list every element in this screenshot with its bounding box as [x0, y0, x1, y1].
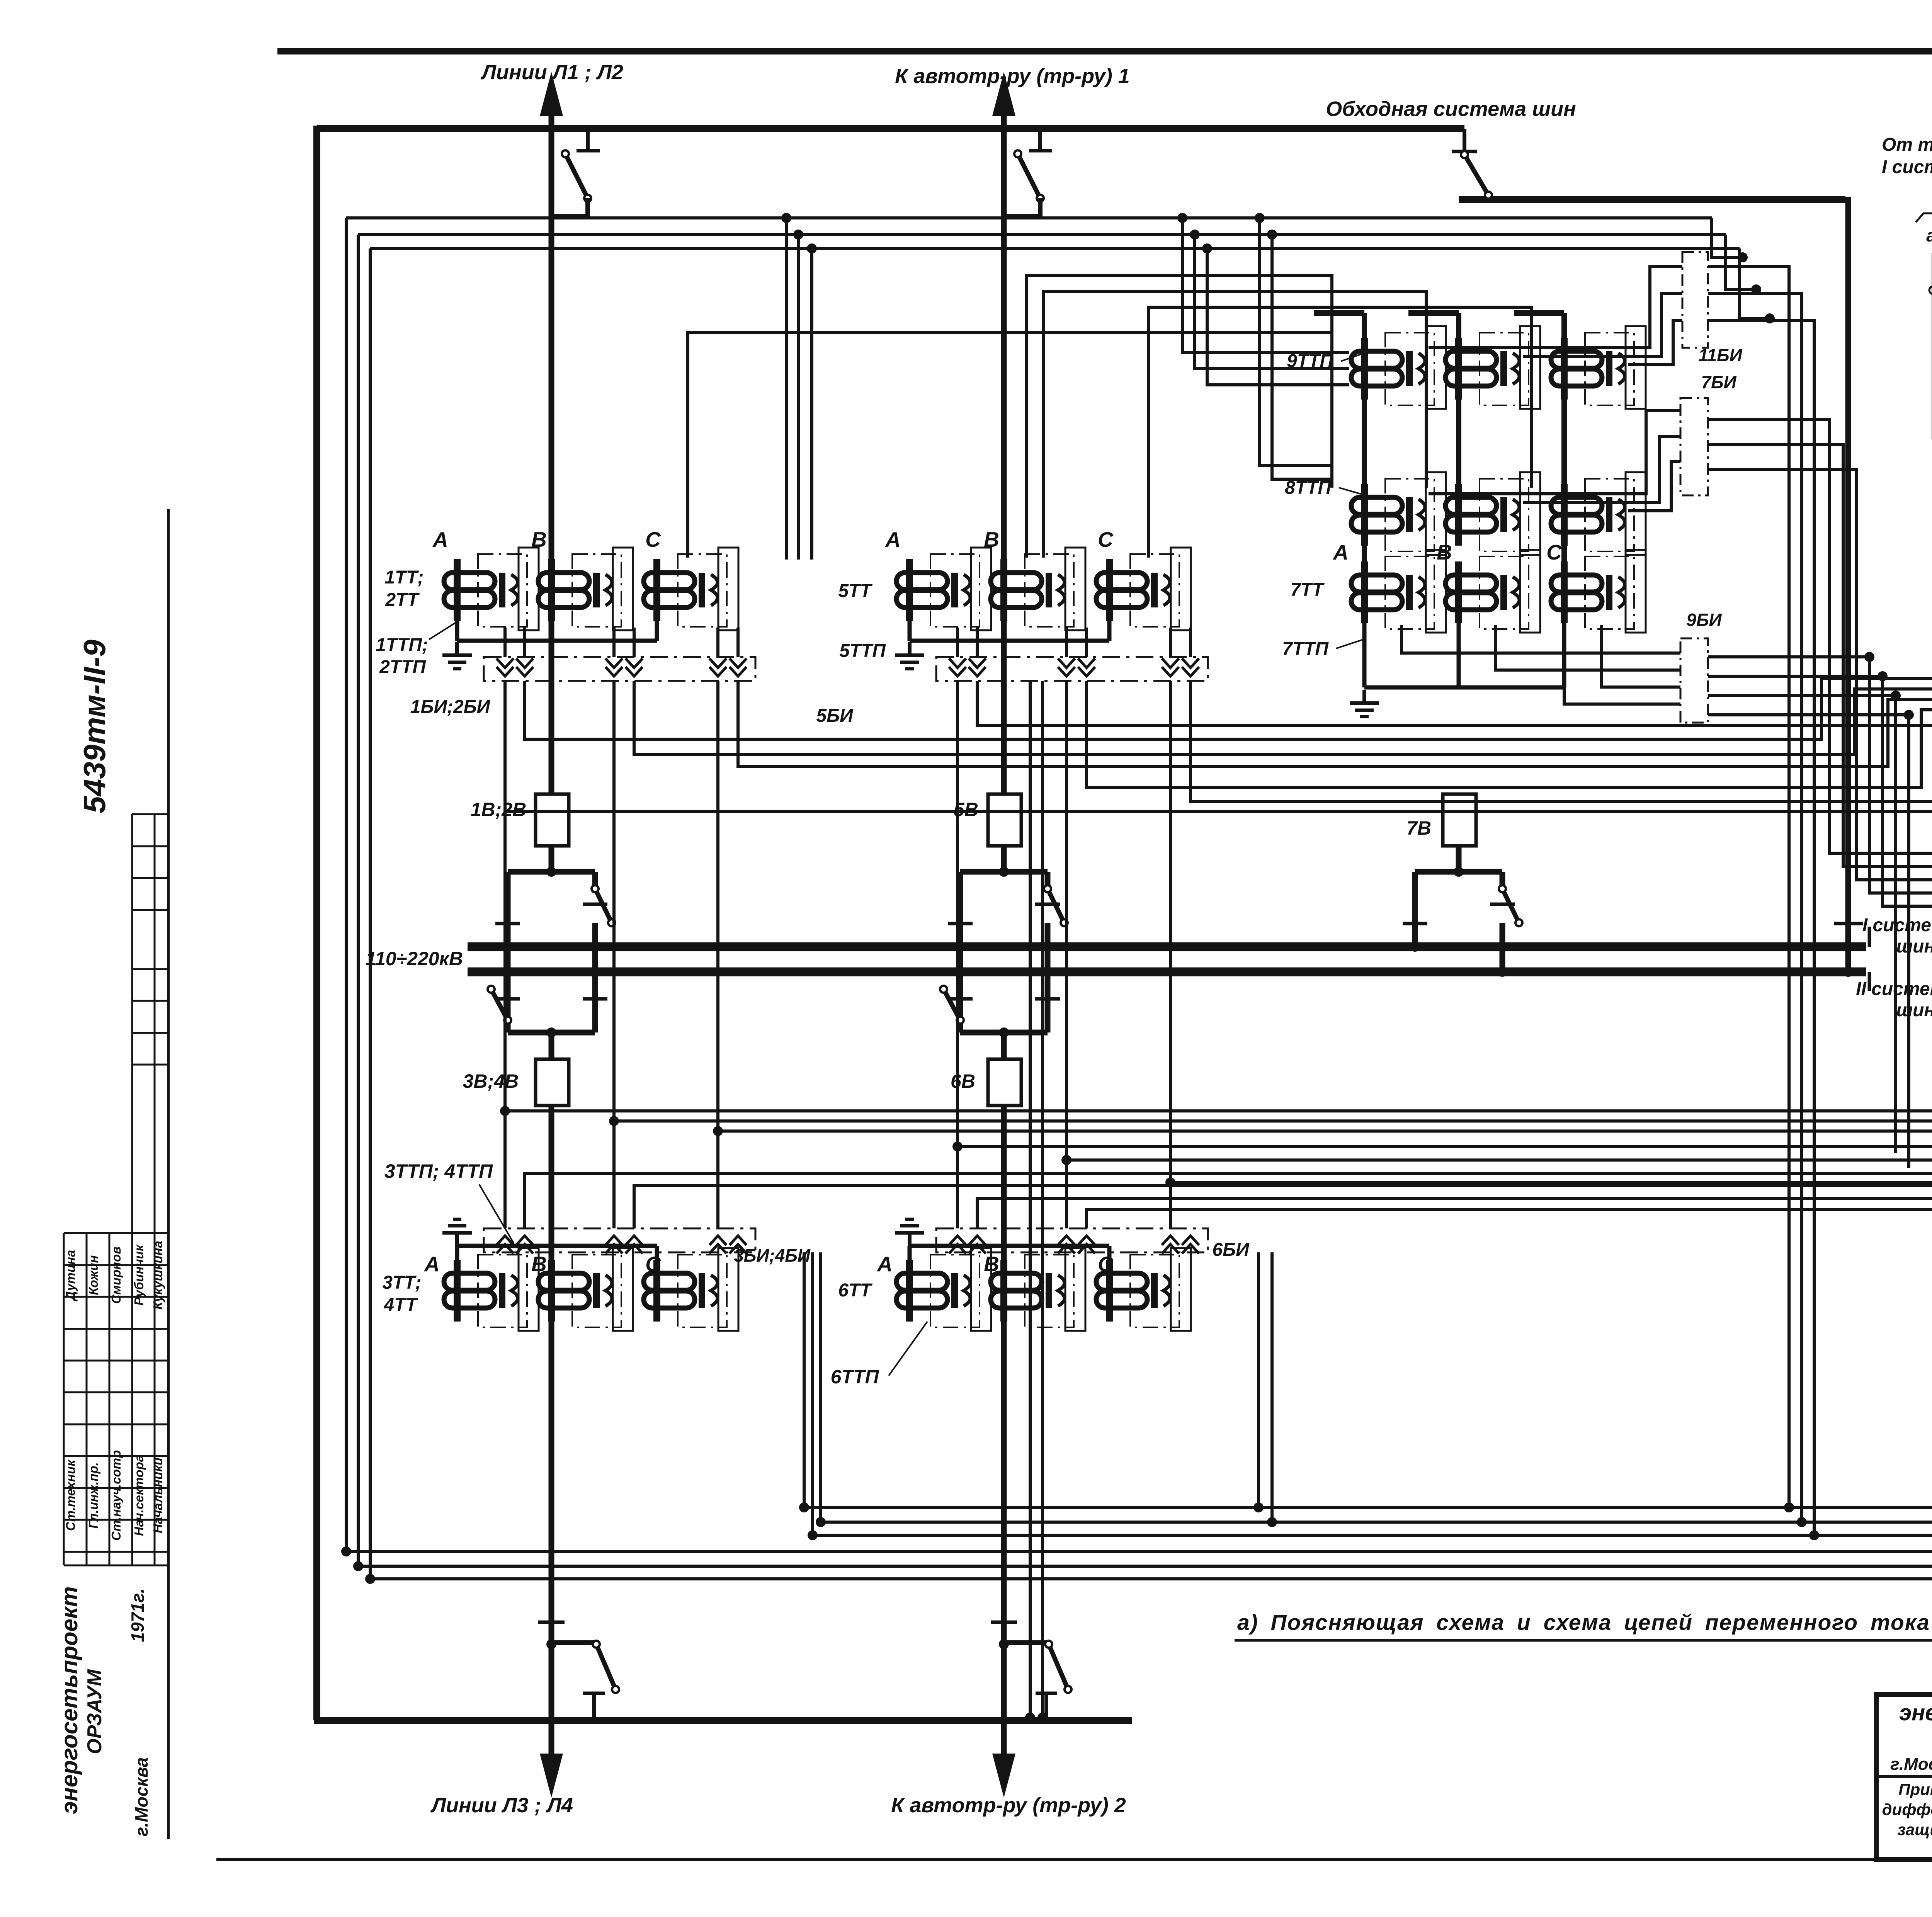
wire f2 loop to 8TTP 3: [1149, 307, 1532, 558]
ground 3TTP: [442, 1219, 472, 1246]
svg-text:3ТТ;: 3ТТ;: [382, 1272, 421, 1293]
stamp lower row line 7: [64, 1455, 168, 1457]
wire 9TTP to 11BI 2: [1523, 294, 1682, 356]
wire 7BI out 1: [1708, 419, 1932, 856]
wire 5BI to 3RTT 0: [957, 681, 1932, 1146]
svg-text:7В: 7В: [1406, 817, 1431, 839]
wire left drop c: [369, 248, 372, 1579]
svg-text:энергосетьпроект: энергосетьпроект: [1899, 1700, 1932, 1725]
CT group 1TT;2TT row: [444, 559, 518, 621]
8TTP-7TT primary chain: [1362, 545, 1367, 562]
svg-text:От тр-ра напряжения: От тр-ра напряжения: [1882, 134, 1932, 155]
feeder x2598 lower shaft: [1001, 1106, 1007, 1762]
breaker 5V and bus coupling: [988, 794, 1021, 846]
caption underline: [1235, 1639, 1932, 1642]
busbar I 110-220kV: [468, 942, 1866, 951]
svg-text:ОРЗАУМ: ОРЗАУМ: [83, 1669, 106, 1754]
svg-text:А: А: [1332, 540, 1349, 564]
svg-text:защиты шин напряжением: защиты шин напряжением: [1897, 1820, 1932, 1839]
svg-text:Ст.науч.сотр: Ст.науч.сотр: [109, 1450, 123, 1541]
ground 6TTP: [895, 1219, 924, 1246]
stamp upper row line 0: [132, 813, 168, 815]
disconnector T1-bypass stub: [1004, 198, 1040, 216]
wire 11BI out 2: [1708, 294, 1802, 1522]
wire 7TT to 9BI 3: [1601, 625, 1680, 687]
6BI arrow x2478: [949, 1236, 966, 1254]
svg-text:Линии Л1 ; Л2: Линии Л1 ; Л2: [480, 61, 623, 84]
sheet bottom border: [216, 1858, 1932, 1861]
title left cell divider: [1876, 1775, 1932, 1778]
wire 5BI down to 6BI c: [1169, 1182, 1172, 1228]
bottom thick tie line: [314, 1717, 1132, 1724]
wire 1BI down to 3BI 1: [612, 1121, 616, 1228]
wire nested loop e: [1272, 235, 1332, 479]
stamp lower row line 0: [64, 1232, 168, 1234]
svg-text:1ТТП;: 1ТТП;: [376, 635, 428, 655]
1BI arrow x1307: [497, 658, 514, 676]
svg-text:110÷220кВ: 110÷220кВ: [366, 948, 463, 970]
wire f1 loop to 9TTP 1: [688, 332, 1332, 558]
svg-text:С: С: [645, 527, 661, 551]
disconnector T1-bypass stem tick: [1029, 149, 1052, 153]
wire 7TT to 9BI 4: [1564, 687, 1680, 704]
svg-text:II система: II система: [1856, 979, 1932, 999]
feeder T1 up arrow: [992, 72, 1015, 116]
svg-text:шин: шин: [1896, 936, 1932, 957]
junction dot 2101: [807, 243, 817, 253]
wire f2 loop to 8TTP 2: [1043, 291, 1426, 558]
stub x1358 to 1BI: [523, 628, 526, 657]
3BI arrow x1358: [516, 1236, 533, 1254]
svg-text:2ТТП: 2ТТП: [379, 657, 426, 677]
wire 1BI to 3RTT 2: [718, 681, 1932, 1131]
stub x2478 to 5BI: [956, 628, 959, 657]
stamp table lower verticals: [63, 1233, 65, 1565]
stamp column right edge: [167, 509, 170, 1839]
stamp lower row line 9: [64, 1519, 168, 1521]
stamp upper row line 2: [132, 877, 168, 879]
svg-text:Кожин: Кожин: [86, 1255, 100, 1295]
6BI arrow x2812: [1078, 1236, 1095, 1254]
wire 1BI down to 3BI 0: [503, 1111, 507, 1228]
6BI arrow x3081: [1182, 1236, 1199, 1254]
wire mid drop a: [785, 218, 788, 560]
wire top right drop b: [1726, 235, 1756, 289]
svg-text:Рубинчик: Рубинчик: [132, 1244, 146, 1306]
5BI arrow x2478: [949, 658, 966, 676]
1BI arrow x1358: [516, 658, 533, 676]
svg-text:Начальники: Начальники: [151, 1458, 165, 1533]
stamp lower row line 3: [64, 1328, 168, 1330]
6BI arrow x2760: [1058, 1236, 1075, 1254]
CT group 8TTP row: [1351, 484, 1425, 546]
wire tie drop c: [1207, 248, 1349, 385]
svg-text:А: А: [432, 527, 448, 551]
svg-text:Ст.техник: Ст.техник: [63, 1459, 78, 1531]
stub x1858 to 1BI: [716, 628, 719, 657]
wire top right drop c: [1740, 248, 1770, 318]
wire run 2100: [505, 651, 1932, 811]
svg-text:Кукушкина: Кукушкина: [151, 1241, 165, 1310]
svg-text:А: А: [423, 1252, 440, 1276]
wire RTB 64 drop: [821, 1203, 1932, 1522]
svg-text:1971г.: 1971г.: [128, 1588, 148, 1642]
ground 5TTP: [895, 642, 924, 669]
feeder L1L2 up arrow: [540, 72, 563, 116]
svg-text:5БИ: 5БИ: [816, 706, 854, 726]
wire 7TT to 9BI 1: [1401, 625, 1680, 653]
stub x1641 to 1BI: [633, 628, 636, 657]
svg-text:В: В: [1437, 540, 1452, 564]
CT group 6TT row: [896, 1260, 970, 1322]
wire RTB 61 drop: [346, 1203, 1932, 1551]
5BI arrow x2760: [1058, 658, 1075, 676]
wire 7TT to 9BI 2: [1496, 625, 1680, 670]
feeder x2598 down arrow: [992, 1754, 1015, 1798]
stamp lower row line 4: [64, 1360, 168, 1362]
stamp lower row line 8: [64, 1487, 168, 1489]
svg-text:Гл.инж.пр.: Гл.инж.пр.: [86, 1462, 100, 1529]
6BI arrow x2529: [969, 1236, 986, 1254]
stub x1910 to 1BI: [736, 628, 740, 657]
wire 5BI to 3RTT 1: [1066, 681, 1932, 1160]
CT group 3TT;4TT row: [444, 1260, 518, 1322]
svg-text:В: В: [531, 1252, 547, 1276]
feeder x1427 bottom tee: [592, 1693, 596, 1720]
svg-text:С: С: [1098, 1252, 1114, 1276]
wire 6BI drop v 3257: [1257, 1252, 1260, 1507]
disconnector L1L2-bypass stem: [586, 129, 590, 151]
wire 9BI out 4: [1708, 715, 1909, 1168]
stamp lower row line 5: [64, 1391, 168, 1393]
wire 9TTP to 11BI 1: [1429, 267, 1682, 348]
wire RTB 62 drop: [804, 1203, 1932, 1507]
bypass downlead tick at bus I: [1834, 922, 1863, 925]
relay block 7BI arrows: [1703, 410, 1704, 411]
stamp upper row line 4: [132, 968, 168, 970]
wire 7BI out 3: [1708, 469, 1932, 880]
stamp upper row line 3: [132, 909, 168, 911]
wire 5BI down to 6BI 0: [956, 1146, 959, 1228]
wire 9BI out 2: [1708, 676, 1932, 906]
wire 3BI up run 1: [525, 1017, 1932, 1228]
wire nested loop d: [1260, 218, 1332, 466]
svg-text:дифференциально-тормозной: дифференциально-тормозной: [1882, 1800, 1932, 1818]
wire top run c: [370, 247, 1740, 250]
relay box 1BI;2BI dash frame: [484, 657, 755, 681]
busbar II 110-220kV: [468, 968, 1866, 976]
feeder x1427 bottom blade: [596, 1644, 616, 1689]
svg-text:г.Москва: г.Москва: [1890, 1755, 1932, 1774]
wire run 3972: [813, 1534, 1932, 1537]
wire 5BI drop v 2666: [1029, 681, 1032, 1716]
wire left drop b: [357, 235, 360, 1566]
wire left drop a: [345, 218, 348, 1551]
stamp lower row line 10: [64, 1551, 168, 1553]
5BI arrow x3081: [1182, 658, 1199, 676]
bypass busbar (Obkhodnaya sistema shin): [317, 125, 1464, 132]
stamp lower row line 6: [64, 1424, 168, 1425]
svg-text:К автотр-ру (тр-ру) 2: К автотр-ру (тр-ру) 2: [891, 1794, 1126, 1817]
stub x2529 to 5BI: [976, 628, 979, 657]
CT group 5TT row: [896, 559, 970, 621]
feeder x2598 bottom node: [999, 1639, 1009, 1649]
svg-text:шин: шин: [1896, 1000, 1932, 1021]
stamp upper row line 7: [132, 1064, 168, 1066]
ground 1TTP: [442, 642, 472, 669]
disconnector bypass-to-tie stem: [1463, 129, 1466, 151]
stub x2812 to 5BI: [1085, 628, 1088, 657]
left thick boundary: [313, 126, 320, 1720]
svg-text:Принцип схемы и расчеты: Принцип схемы и расчеты: [1898, 1780, 1932, 1798]
bypass downlead joint circle bus II: [1844, 968, 1852, 976]
stamp upper row line 5: [132, 1000, 168, 1002]
wire 3BI up run 2: [634, 1017, 1932, 1228]
CT group 9TTP row: [1351, 338, 1425, 400]
5BI arrow x2529: [969, 658, 986, 676]
svg-text:С: С: [645, 1252, 661, 1276]
junction dot 3092: [1190, 230, 1200, 240]
wire 11BI out 3: [1708, 321, 1814, 1535]
3BI arrow x1858: [709, 1236, 726, 1254]
disconnector L1L2-bypass stub: [551, 198, 588, 216]
svg-text:Нач.сектора: Нач.сектора: [132, 1455, 146, 1536]
relay box 5BI dash frame: [936, 657, 1208, 681]
svg-text:С: С: [1098, 527, 1114, 551]
svg-text:3ТТП; 4ТТП: 3ТТП; 4ТТП: [384, 1160, 493, 1182]
wire mid drop c: [810, 248, 813, 560]
wire 5BI drop v 2698: [1041, 681, 1044, 1716]
wire 11BI out 1: [1708, 267, 1789, 1507]
callout 1TTP: [429, 623, 455, 640]
wire top run a: [346, 216, 1712, 219]
svg-text:1ТТ;: 1ТТ;: [384, 567, 423, 588]
breaker 7V and bus coupling: [1443, 794, 1476, 846]
wire 1BI down to 3BI 2: [716, 1131, 719, 1228]
wire 9BI out 1: [1708, 657, 1932, 893]
wire f2 loop to 8TTP 1: [1026, 276, 1332, 558]
title block outer: [1876, 1694, 1932, 1859]
wire KRT row1 feed 3: [1087, 651, 1932, 788]
wire 6BI up run 1: [977, 1017, 1932, 1228]
CT group 7TT row: [1351, 561, 1425, 623]
stub x3029 to 5BI: [1169, 628, 1172, 657]
wire 5BI down to 6BI 1: [1065, 1160, 1068, 1228]
svg-text:5ТТ: 5ТТ: [838, 581, 872, 601]
wire 6BI drop v 2124: [819, 1252, 822, 1522]
wire 6BI drop v 3292: [1270, 1252, 1274, 1522]
7TT common line: [1364, 685, 1564, 690]
5BI arrow x3029: [1162, 658, 1179, 676]
wire top run b: [358, 233, 1726, 236]
stamp lower row line 1: [64, 1264, 168, 1266]
svg-text:5ТТП: 5ТТП: [839, 641, 886, 661]
svg-text:1БИ;2БИ: 1БИ;2БИ: [410, 697, 491, 717]
wire 7BI out 2: [1708, 444, 1932, 867]
feeder x1427 bottom isolator tick: [538, 1621, 565, 1624]
6BI arrow x3029: [1162, 1236, 1179, 1254]
wire 8TTP to 7BI 2: [1523, 436, 1680, 502]
wire tie drop a: [1182, 218, 1349, 352]
wire KRT row1 feed 0: [525, 672, 1932, 739]
3BI arrow x1307: [497, 1236, 514, 1254]
relay block 11BI arrows: [1704, 266, 1704, 267]
svg-text:С: С: [1546, 540, 1562, 564]
1BI arrow x1858: [709, 658, 726, 676]
wire KRT row1 feed 4: [1190, 651, 1932, 801]
3BI arrow x1589: [605, 1236, 622, 1254]
1BI arrow x1589: [605, 658, 622, 676]
5BI arrow x2812: [1078, 658, 1095, 676]
feeder x1427 bottom node: [546, 1639, 556, 1649]
svg-text:В: В: [984, 1252, 999, 1276]
disconnector bypass-to-tie blade: [1464, 155, 1488, 195]
1BI arrow x1641: [626, 658, 643, 676]
9TTP-8TTP primary chain: [1362, 399, 1367, 485]
junction dot 2066: [793, 230, 803, 240]
svg-text:А: А: [884, 527, 901, 551]
svg-text:К автотр-ру (тр-ру) 1: К автотр-ру (тр-ру) 1: [895, 65, 1130, 88]
svg-text:7ТТ: 7ТТ: [1290, 580, 1325, 600]
disconnector L1L2-bypass stem tick: [577, 149, 600, 153]
disconnector bypass-to-tie tick: [1452, 150, 1477, 153]
wire run 1878: [977, 651, 1932, 726]
svg-text:В: В: [984, 527, 999, 551]
svg-text:6БИ: 6БИ: [1212, 1240, 1250, 1260]
sheet top border: [277, 48, 1932, 54]
wire RTB 63 drop: [358, 1203, 1932, 1566]
voltage circuit I buses and relays 1RN 2RN: [1932, 253, 1932, 439]
feeder L1L2 shaft: [549, 108, 554, 794]
wire 9TTP to 11BI 3: [1628, 321, 1682, 365]
feeder x2598 bottom isolator tick: [991, 1621, 1017, 1624]
wire 1BI to 3RTT 0: [505, 681, 1932, 1111]
stub x3081 to 5BI: [1189, 628, 1192, 657]
relay block 7BI frame: [1680, 398, 1708, 495]
svg-text:а) Поясняющая схема и схем: а) Поясняющая схема и схема цепей переме…: [1237, 1610, 1930, 1635]
svg-text:Линии Л3 ; Л4: Линии Л3 ; Л4: [430, 1794, 573, 1817]
relay block 9BI frame: [1680, 638, 1708, 723]
ground 7TTP: [1350, 690, 1379, 717]
wire top right drop a: [1712, 218, 1743, 257]
wire KRT row1 feed 2: [738, 672, 1932, 767]
wire run 3060: [1170, 681, 1932, 1182]
bypass bus right extension: [1459, 196, 1845, 203]
wire 9BI out 3: [1708, 696, 1896, 1153]
stub x1307 to 1BI: [503, 628, 507, 657]
wire 6BI drop v 2081: [803, 1252, 806, 1507]
svg-text:5439тм-II-9: 5439тм-II-9: [77, 640, 112, 813]
junction dot 3124: [1202, 243, 1212, 253]
wire 8TTP to 7BI 3: [1628, 462, 1680, 511]
stamp upper row line 6: [132, 1032, 168, 1034]
stamp lower row line 11: [64, 1565, 168, 1567]
3BI arrow x1641: [626, 1236, 643, 1254]
svg-text:А: А: [876, 1252, 893, 1276]
svg-text:Дутина: Дутина: [63, 1250, 78, 1302]
svg-text:3В;4В: 3В;4В: [463, 1070, 519, 1092]
busbar I end tick: [1868, 927, 1871, 947]
7TT drops: [1362, 623, 1367, 687]
svg-text:а: а: [1926, 225, 1932, 245]
stub x2760 to 5BI: [1065, 628, 1068, 657]
wire 8TTP to 7BI 1: [1429, 411, 1680, 494]
breaker 1V;2V and bus coupling: [536, 794, 569, 846]
feeder x1427 lower shaft: [549, 1106, 554, 1762]
wire tie drop b: [1195, 235, 1349, 369]
svg-text:7ТТП: 7ТТП: [1282, 639, 1329, 659]
svg-text:В: В: [531, 527, 547, 551]
wire RTB 65 drop: [370, 1203, 1932, 1579]
feeder x2598 bottom tee: [1044, 1693, 1048, 1720]
1BI arrow x1910: [730, 658, 747, 676]
svg-text:7БИ: 7БИ: [1701, 372, 1736, 392]
svg-text:6ТТ: 6ТТ: [838, 1280, 872, 1301]
junction dots bottom left: [341, 1546, 351, 1556]
3BI arrow x1910: [730, 1236, 747, 1254]
svg-text:3БИ;4БИ: 3БИ;4БИ: [734, 1245, 811, 1266]
svg-text:Смирнов: Смирнов: [109, 1247, 123, 1304]
wire KRT row1 feed 1: [634, 651, 1932, 754]
stamp table upper verticals: [131, 814, 133, 1233]
disconnector T1-bypass blade: [1018, 154, 1040, 198]
relay block 11BI frame: [1682, 252, 1708, 348]
svg-text:г.Москва: г.Москва: [131, 1757, 151, 1837]
junction dot 3060: [1177, 213, 1187, 223]
wire mid drop b: [797, 235, 800, 560]
svg-text:9БИ: 9БИ: [1686, 610, 1722, 630]
relay box 6BI dash frame: [936, 1228, 1208, 1252]
svg-text:энергосетьпроект: энергосетьпроект: [56, 1586, 82, 1814]
svg-text:11БИ: 11БИ: [1698, 345, 1742, 365]
wire 1BI to 3RTT 1: [614, 681, 1932, 1121]
stub x1589 to 1BI: [612, 628, 616, 657]
disconnector L1L2-bypass blade: [565, 154, 588, 198]
svg-text:4ТТ: 4ТТ: [383, 1295, 418, 1315]
bypass right downlead: [1845, 197, 1851, 976]
stamp lower row line 2: [64, 1296, 168, 1298]
feeder x2598 bottom blade: [1049, 1644, 1068, 1689]
disconnector T1-bypass stem: [1038, 129, 1042, 151]
wire 6BI up run 2: [1087, 1017, 1932, 1228]
feeder x1427 down arrow: [540, 1754, 563, 1798]
svg-text:6ТТП: 6ТТП: [831, 1366, 879, 1388]
relay box 3BI;4BI dash frame: [484, 1228, 755, 1252]
relay block 9BI arrows: [1703, 653, 1704, 653]
svg-text:2ТТ: 2ТТ: [385, 590, 420, 610]
wire 6BI drop v 2103: [811, 1252, 814, 1535]
CT 8TTP phase C: [1551, 484, 1625, 546]
feeder T1 shaft: [1001, 108, 1007, 794]
svg-text:Обходная система шин: Обходная система шин: [1326, 97, 1576, 121]
svg-text:1В;2В: 1В;2В: [471, 799, 526, 820]
svg-text:I системы шин: I системы шин: [1882, 157, 1932, 177]
stamp upper row line 1: [132, 845, 168, 847]
svg-text:6В: 6В: [951, 1070, 975, 1092]
junction dot 2035: [781, 213, 791, 223]
